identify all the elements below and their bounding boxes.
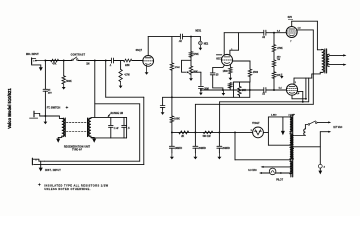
T1 HV winding mid <box>290 134 292 145</box>
wire ground loop outer <box>106 96 144 98</box>
resistor 10K bias <box>273 67 275 72</box>
svg-text:CONTRAST: CONTRAST <box>71 53 86 56</box>
wire primary return <box>294 146 320 148</box>
tone box left edge <box>105 61 107 98</box>
wire left rail lower <box>44 91 46 116</box>
range box top <box>91 116 127 118</box>
node tone tap <box>94 60 96 62</box>
svg-text:TYPE 4-F: TYPE 4-F <box>72 149 83 152</box>
tube V1 6SQ7 <box>143 56 154 67</box>
svg-text:INSULATED TYPE ALL RESISTORS 1: INSULATED TYPE ALL RESISTORS 1/2W <box>44 183 108 187</box>
wire input bus <box>45 60 71 62</box>
resistor 100K plate V1 <box>171 37 173 63</box>
node grid line b <box>222 89 224 91</box>
capacitor .02 to V4 <box>263 88 265 93</box>
tube V2 6SC7 <box>221 54 232 65</box>
resistor 1500 second <box>248 69 251 77</box>
node V4 cathode <box>305 98 307 100</box>
resistor 250 7W <box>273 52 275 60</box>
resistor 2K <box>179 131 189 134</box>
wire grid feed V2 <box>216 54 221 56</box>
ground below 500K <box>63 84 65 87</box>
svg-text:47K: 47K <box>52 63 57 66</box>
wire nested rail <box>220 101 309 103</box>
heater lead 2 <box>260 172 269 174</box>
node grid line a <box>200 89 202 91</box>
capacitor decouple <box>160 105 165 107</box>
node rail crossing <box>171 96 173 98</box>
capacitor .1 coupling <box>110 58 112 63</box>
range wiper arrow <box>109 114 111 116</box>
svg-text:6SQ7: 6SQ7 <box>136 49 143 52</box>
wire to regen coil <box>45 115 59 117</box>
svg-text:4.7M: 4.7M <box>124 74 129 77</box>
regen core <box>63 118 65 137</box>
capacitor .1 uf range <box>110 117 112 125</box>
wire to V3 grid <box>266 32 286 34</box>
node B+ b <box>194 131 196 133</box>
svg-text:270K: 270K <box>277 48 283 50</box>
svg-text:10MFD: 10MFD <box>175 148 183 150</box>
T1 primary hook coil <box>304 129 306 135</box>
resistor V2 lower <box>229 83 232 88</box>
AC lead neutral <box>320 131 329 133</box>
capacitor 25 25V <box>43 88 48 90</box>
switch power on-off <box>308 124 310 126</box>
node grid line c <box>249 89 251 91</box>
wire neutral drop <box>319 132 321 165</box>
V3 screen wire <box>297 29 313 31</box>
heater lead 1 <box>262 166 291 168</box>
svg-text:470K: 470K <box>193 53 199 56</box>
V2 plate rail <box>224 32 264 34</box>
ground stub right of 10K <box>281 74 283 76</box>
wire V2 right cathode <box>233 60 250 62</box>
regen core secondary <box>87 118 89 137</box>
regen unit primary coil <box>62 118 65 136</box>
center tap ground arrow <box>282 117 284 131</box>
tube V3 6V6 upper <box>286 27 297 38</box>
range box bottom <box>91 137 127 139</box>
T1 6.3V winding <box>290 161 292 173</box>
note star <box>38 183 42 187</box>
svg-text:117 VAC: 117 VAC <box>333 126 342 129</box>
resistor 270K <box>273 33 275 45</box>
svg-text:FT. SWITCH: FT. SWITCH <box>47 106 61 109</box>
svg-text:6.3 VAC: 6.3 VAC <box>248 169 257 172</box>
ground at mic jack <box>32 64 41 67</box>
svg-text:25V: 25V <box>48 93 52 95</box>
svg-text:NE2: NE2 <box>204 43 209 45</box>
node input B <box>63 60 65 62</box>
svg-text:PILOT: PILOT <box>276 180 283 182</box>
capacitor 10MFD filter <box>171 132 173 145</box>
V1 plate lead <box>147 37 149 56</box>
V3 plate wire <box>291 21 293 26</box>
svg-text:1M: 1M <box>86 63 89 65</box>
wire 100K chain <box>171 70 173 116</box>
ground below decouple cap <box>162 107 164 110</box>
wire to V1 grid <box>114 60 124 62</box>
svg-text:20MFD: 20MFD <box>222 148 230 150</box>
wire left rail upper <box>44 61 46 89</box>
pilot lamp <box>269 168 276 175</box>
node decouple corner <box>162 97 164 105</box>
tube V4 6V6 lower <box>286 84 297 95</box>
node plate net <box>190 36 192 38</box>
capacitor 25 bypass loop <box>213 65 225 72</box>
range box right <box>126 117 128 137</box>
T1 5V winding <box>290 147 292 159</box>
svg-text:1500: 1500 <box>223 71 229 73</box>
svg-text:20MFD: 20MFD <box>198 148 206 150</box>
output transformer T2 <box>322 49 324 72</box>
node ft jack <box>44 115 46 117</box>
heater lead 3 <box>276 172 291 174</box>
svg-text:REGENERATION UNIT: REGENERATION UNIT <box>64 145 91 148</box>
heater wire <box>235 159 291 161</box>
AC lead hot <box>317 121 330 123</box>
ground below 20M cap <box>200 89 202 91</box>
tube V5 5Y3GT <box>253 127 264 138</box>
resistor 470K <box>190 37 192 52</box>
svg-text:500 1W: 500 1W <box>203 136 212 138</box>
grid line V4 <box>201 89 264 91</box>
V4 plate wire <box>293 78 295 84</box>
T1 filament winding right <box>291 148 293 159</box>
svg-text:UNLESS NOTED OTHERWISE.: UNLESS NOTED OTHERWISE. <box>44 187 90 191</box>
ground under loop <box>222 90 224 93</box>
node B+ c <box>218 131 220 133</box>
mic input jack J1 <box>31 58 33 64</box>
ground inst jack <box>40 161 42 167</box>
ground below 10MFD <box>171 148 173 153</box>
svg-text:MIC. INPUT: MIC. INPUT <box>26 54 39 56</box>
resistor 100K dropper <box>170 116 173 123</box>
svg-text:RANGE 1M: RANGE 1M <box>111 112 123 115</box>
svg-text:6V6: 6V6 <box>288 16 293 19</box>
capacitor .02 coupling V1-V2 <box>179 34 181 39</box>
ground below 1500 <box>229 74 231 78</box>
feedback box <box>234 82 250 97</box>
resistor 22M <box>124 59 132 62</box>
svg-text:2 AMP: 2 AMP <box>288 114 295 117</box>
V2 grid2 feed <box>238 33 240 51</box>
resistor 47K series <box>51 59 59 62</box>
svg-text:10K: 10K <box>242 90 247 92</box>
resistor 4.7M grid leak <box>120 61 122 70</box>
node input A <box>44 60 46 62</box>
B+ rail <box>172 131 253 133</box>
wire pot to bypass cap <box>191 71 201 73</box>
ground regen primary <box>58 136 62 138</box>
svg-text:1500: 1500 <box>253 72 259 74</box>
V4 cathode wire <box>291 95 293 99</box>
instrument jack J3 <box>31 158 33 165</box>
capacitor 20M bypass <box>199 86 204 88</box>
ground below terminal <box>319 168 321 171</box>
power transformer T1 core <box>290 115 292 177</box>
svg-text:100K: 100K <box>174 119 180 121</box>
capacitor .02 to V3 <box>263 30 265 35</box>
svg-text:5Y3GT: 5Y3GT <box>252 123 260 125</box>
V2 plate lead <box>223 33 225 55</box>
V5 right lead <box>263 131 268 133</box>
T1 HV winding upper <box>290 117 292 132</box>
resistor 500 1W <box>203 131 213 134</box>
wire cap to node <box>183 36 201 38</box>
resistor 10K feedback <box>239 82 241 86</box>
svg-text:.1 uf: .1 uf <box>114 128 119 130</box>
capacitor 20MFD filter 3 <box>218 132 220 145</box>
ground below NE51 <box>199 45 201 48</box>
wire ground loop inner <box>94 61 96 118</box>
regen unit secondary coil <box>88 118 91 136</box>
svg-text:2K: 2K <box>181 136 184 138</box>
wire pilot box <box>234 132 236 160</box>
capacitor .5 range <box>123 117 125 125</box>
node grid line d <box>273 89 275 91</box>
svg-text:6SC7: 6SC7 <box>216 58 222 60</box>
V1 cathode ground <box>146 65 148 72</box>
node B+ d <box>234 131 236 133</box>
V1 plate rail <box>148 36 180 38</box>
svg-text:Valco Model 510/521: Valco Model 510/521 <box>7 88 12 129</box>
potentiometer 500K contrast <box>63 61 65 76</box>
svg-text:1-840: 1-840 <box>271 114 277 117</box>
speaker lead lower <box>329 64 345 66</box>
screen rail <box>195 103 313 105</box>
svg-text:NE51: NE51 <box>195 30 201 32</box>
ground below 20MFD 3 <box>218 148 220 153</box>
ground below 50K <box>190 75 192 79</box>
resistor 1500 cathode V2 <box>229 65 231 67</box>
ground below 4.7M <box>120 82 122 86</box>
svg-text:INST. INPUT: INST. INPUT <box>45 169 61 172</box>
wire box drop <box>219 102 221 133</box>
capacitor 20MFD filter 2 <box>194 132 196 145</box>
potentiometer 50K <box>190 57 192 66</box>
svg-text:22M: 22M <box>125 65 130 67</box>
wire switch to tone box <box>78 60 111 62</box>
node B+ a <box>171 131 173 133</box>
ground regen secondary <box>91 136 94 138</box>
foot switch jack J2 <box>33 111 35 117</box>
line ground terminal <box>318 164 322 168</box>
T1 primary winding <box>291 135 293 146</box>
node bias top <box>273 32 275 34</box>
rectifier box wires <box>267 117 269 145</box>
wire right signal rail <box>163 96 250 98</box>
speaker lead upper <box>329 54 345 56</box>
svg-text:270K: 270K <box>175 67 181 69</box>
regen dashed link upper <box>66 121 86 123</box>
V4 screen wire <box>298 90 303 92</box>
ground left rail <box>44 116 46 122</box>
svg-text:500K: 500K <box>66 81 72 83</box>
node screen corner <box>302 101 304 103</box>
ground below 20MFD 2 <box>194 148 196 153</box>
regen dashed link lower <box>66 130 86 132</box>
